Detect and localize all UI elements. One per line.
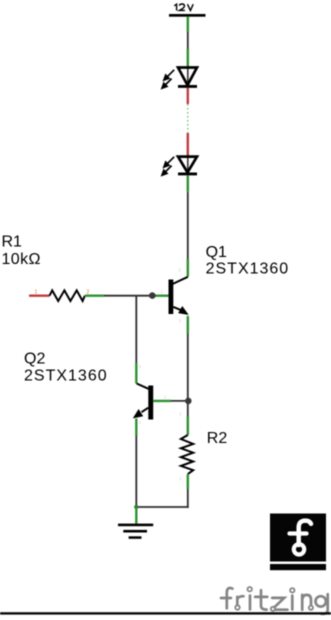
svg-text:Q2: Q2 [24, 350, 45, 367]
svg-text:1: 1 [35, 290, 38, 296]
svg-text:10kΩ: 10kΩ [2, 251, 41, 268]
svg-text:2STX1360: 2STX1360 [24, 368, 108, 385]
svg-text:1: 1 [161, 289, 164, 294]
svg-text:Q1: Q1 [206, 244, 227, 261]
svg-text:3: 3 [179, 318, 182, 323]
svg-text:2: 2 [139, 364, 142, 369]
svg-text:1: 1 [164, 395, 167, 400]
svg-text:2STX1360: 2STX1360 [206, 260, 290, 277]
svg-text:2: 2 [179, 476, 182, 481]
svg-text:R1: R1 [2, 234, 23, 251]
svg-text:2: 2 [179, 268, 182, 273]
svg-text:1: 1 [179, 412, 182, 417]
svg-text:3: 3 [139, 420, 142, 425]
svg-text:2: 2 [87, 290, 90, 296]
svg-text:R2: R2 [207, 430, 228, 447]
